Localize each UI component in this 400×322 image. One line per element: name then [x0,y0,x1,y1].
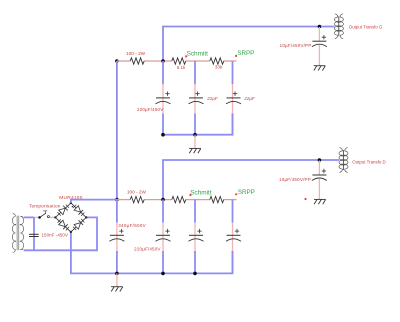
net flag Schmitt (D) [189,194,191,196]
ground (upper middle) [194,135,196,149]
ground (below 10uF G) [314,66,326,71]
switch Temporisation [38,216,41,219]
wire: cap 220uF G top lead [162,61,164,84]
capacitor 22uF G-b [227,97,241,99]
wire: upper B+ top rail [163,27,335,62]
svg-text:340µF/500V: 340µF/500V [118,223,146,228]
ground (below 10uF D) [314,199,326,204]
wire: cap 22uF D-a lead [194,200,196,223]
diode D3 (lower-left) [57,219,70,231]
svg-text:220µF/450V: 220µF/450V [134,246,160,251]
svg-text:5.1k: 5.1k [177,65,186,70]
wire: bridge top to B+ node [71,200,117,203]
wire: transformer secondary bottom to bridge right [24,217,97,250]
wire: switch to bridge left [50,216,56,218]
diode D2 (upper-right) [72,204,85,216]
diode bridge MUR4100 [55,203,86,232]
svg-text:Schmitt: Schmitt [190,189,212,196]
junction at 10uF D tap [318,158,322,162]
svg-text:Output Transfo G: Output Transfo G [349,25,383,30]
diode D1 (upper-left) [57,204,70,216]
net flag dot (near ground D) [304,198,306,200]
bridge vertex dots [54,216,56,218]
wire: B+ feed vertical (upper rail to lower rail) [116,61,118,200]
svg-text:220µF/450V: 220µF/450V [137,107,163,112]
capacitor 150nF -450V [29,233,39,235]
wire: cap 22uF G-a lead [194,61,196,84]
output transformer D [339,148,348,173]
output transformer G [334,14,343,39]
wire: cap 22uF G-b lead [232,61,234,84]
wire: 150nF cap column [33,217,35,250]
net flag SRPP (G) [235,55,237,57]
capacitor 10uF/450V/PP (D) plates [312,174,326,176]
wire: lower B+ top rail [163,160,339,200]
node dot upper-left (B+ feed) [115,59,119,63]
junction dot at node A (D) [161,198,165,202]
svg-text:SRPP: SRPP [238,189,255,196]
svg-text:10µF/450V/PP: 10µF/450V/PP [279,177,311,182]
resistor SRPP (D) [210,196,224,202]
resistor 100-2W (D) [130,196,144,202]
capacitor 10uF/450V/PP (G) leads [318,27,320,41]
capacitor 220uF/450V (G) [156,97,170,99]
svg-text:100 - 2W: 100 - 2W [126,51,146,56]
power transformer [12,213,23,252]
svg-text:22µF: 22µF [243,96,255,101]
junction dot lower-left (B+ feed node) [115,198,119,202]
svg-text:22µF: 22µF [206,96,218,101]
wire: lower red rail segments [117,199,237,201]
svg-text:Schmitt: Schmitt [187,50,209,57]
resistor 33k [210,58,224,64]
wire: upper red rail segments [117,60,237,62]
svg-text:Temporisation: Temporisation [29,204,61,209]
wire: upper ground rail [163,114,233,135]
svg-text:100 - 2W: 100 - 2W [127,190,147,195]
capacitor 22uF G-a [189,97,203,99]
junction at 10uF G tap [318,25,322,29]
wire: cap 220uF D lead [162,200,164,223]
net flag Schmitt (G) [185,55,187,57]
svg-text:Output Transfo D: Output Transfo D [352,159,385,164]
wire: cap 22uF D-b lead [232,200,234,223]
resistor 5.1k [172,58,186,64]
junction dots on lower ground rail [115,272,119,276]
wire: cap 340uF lead (B+ feed column) [116,200,118,223]
capacitor 22uF D-a [189,234,203,236]
wire: transformer secondary top to switch [24,216,34,218]
junction dot at node A (G) [161,59,165,63]
svg-text:33k: 33k [215,65,223,70]
net flag SRPP (D) [235,193,237,195]
svg-text:150nF -450V: 150nF -450V [42,232,69,237]
capacitor 10uF/450V/PP (G) plates [312,40,326,42]
svg-text:SRPP: SRPP [237,50,254,57]
capacitor 22uF D-b [227,234,241,236]
capacitor 220uF/450V (D) [156,234,170,236]
junction dots on upper ground rail [161,133,165,137]
svg-text:10µF/450V/PP: 10µF/450V/PP [280,43,312,48]
wire: lower ground rail [71,232,233,274]
diode D4 (lower-right) [72,218,85,230]
ground (lower middle) [116,273,118,286]
capacitor 10uF/450V/PP (D) leads [318,161,320,176]
capacitor 340uF/500V [110,234,124,236]
resistor Schmitt (D) [172,196,186,202]
resistor 100-2W (G) [130,58,144,64]
